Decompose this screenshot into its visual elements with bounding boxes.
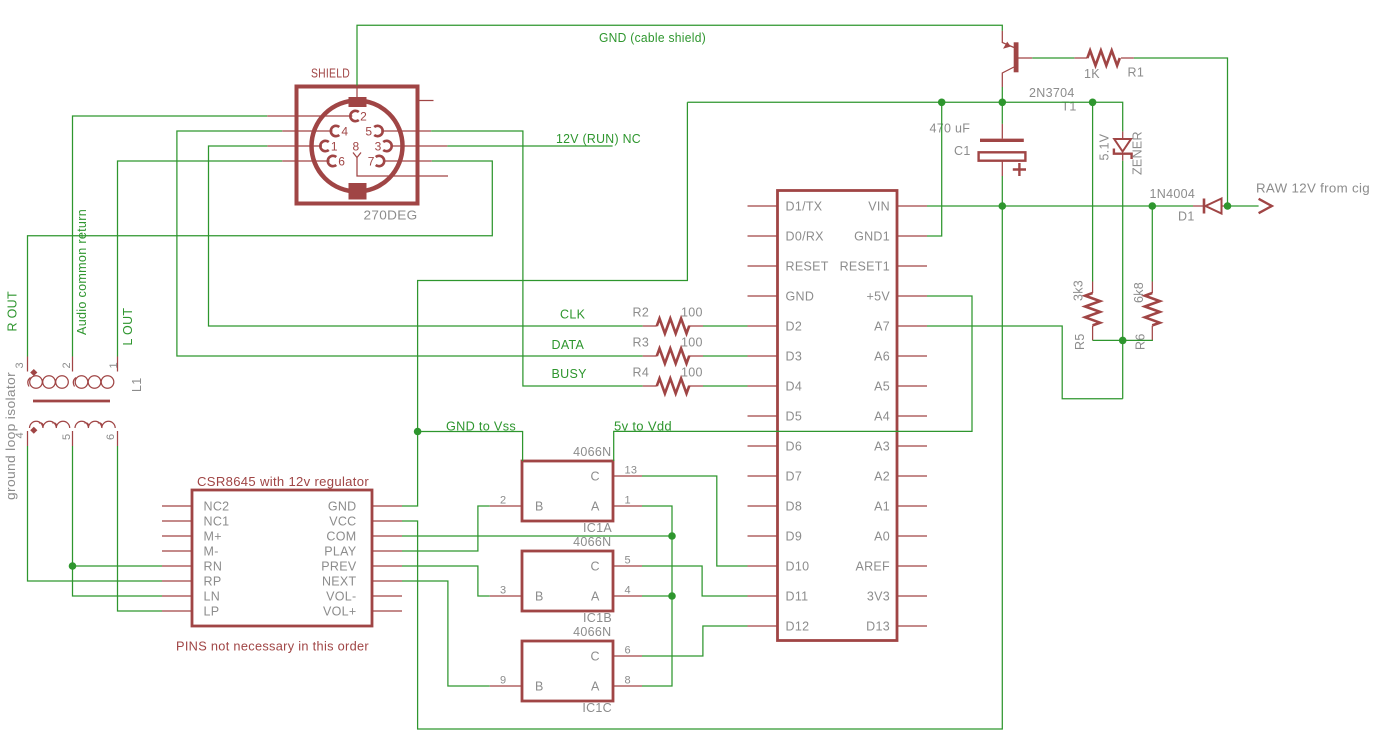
svg-text:2N3704: 2N3704 <box>1029 86 1075 100</box>
pin 3V3 of arduino <box>897 595 927 597</box>
resistor R6 6k8 <box>1151 282 1153 341</box>
svg-text:CSR8645 with 12v regulator: CSR8645 with 12v regulator <box>197 475 369 489</box>
svg-text:LP: LP <box>204 605 220 619</box>
wire R5 top <box>1092 102 1094 281</box>
zener diode 5.1V <box>1114 139 1131 152</box>
pin D13 of arduino <box>897 625 927 627</box>
svg-text:A: A <box>591 500 600 514</box>
transformer L1 bottom winding 5-6 <box>75 421 115 428</box>
svg-text:PREV: PREV <box>321 560 357 574</box>
svg-text:2: 2 <box>360 110 367 124</box>
svg-text:SHIELD: SHIELD <box>311 67 350 81</box>
svg-text:D8: D8 <box>786 500 803 514</box>
pin A4 of arduino <box>897 415 927 417</box>
svg-text:VOL+: VOL+ <box>323 605 357 619</box>
resistor R1 1K <box>1074 57 1134 59</box>
svg-text:Audio common return: Audio common return <box>75 209 89 335</box>
svg-text:12V (RUN) NC: 12V (RUN) NC <box>556 132 641 146</box>
svg-text:VIN: VIN <box>868 200 890 214</box>
RAW 12V arrow head <box>1259 199 1272 213</box>
svg-text:D9: D9 <box>786 530 803 544</box>
svg-text:4: 4 <box>341 125 348 139</box>
svg-text:M-: M- <box>204 545 219 559</box>
svg-text:R2: R2 <box>633 306 650 320</box>
svg-text:GND (cable shield): GND (cable shield) <box>599 31 706 45</box>
pin A5 of arduino <box>897 385 927 387</box>
svg-text:L1: L1 <box>130 377 144 392</box>
pin A6 of arduino <box>897 355 927 357</box>
pin LN of CSR8645 <box>162 595 192 597</box>
svg-text:D11: D11 <box>786 590 809 604</box>
svg-text:VCC: VCC <box>329 515 356 529</box>
svg-text:A3: A3 <box>874 440 890 454</box>
svg-text:1K: 1K <box>1084 67 1100 81</box>
pin GND of arduino <box>748 295 778 297</box>
pin 1 of DIN <box>267 145 322 147</box>
svg-text:A: A <box>591 590 600 604</box>
connector top key tab <box>349 97 367 107</box>
module CSR8645 box <box>192 490 372 626</box>
wire RAW 12V / VIN rail net <box>402 176 1259 729</box>
svg-text:1: 1 <box>625 495 631 507</box>
svg-text:AREF: AREF <box>855 560 890 574</box>
pin GND of CSR8645 <box>372 505 402 507</box>
junction dot <box>668 532 676 540</box>
resistor R2 100 <box>643 325 703 327</box>
wire L OUT net (DIN6 to L1 pin1) <box>118 161 283 357</box>
svg-text:RESET: RESET <box>786 260 829 274</box>
svg-text:4: 4 <box>625 585 631 597</box>
svg-text:D10: D10 <box>786 560 810 574</box>
svg-text:ZENER: ZENER <box>1131 131 1145 175</box>
svg-text:D0/RX: D0/RX <box>786 230 825 244</box>
svg-text:D3: D3 <box>786 350 803 364</box>
junction dot <box>69 562 77 570</box>
svg-text:5v to Vdd: 5v to Vdd <box>614 420 672 434</box>
wire BUSY net <box>431 131 747 386</box>
svg-text:9: 9 <box>500 675 506 687</box>
wire L1 pin4 to RP <box>28 446 163 581</box>
svg-text:NC2: NC2 <box>204 500 230 514</box>
pin GND1 of arduino <box>897 235 927 237</box>
wire CLK net <box>209 146 748 326</box>
wire GND rail net <box>402 87 1123 506</box>
svg-text:B: B <box>535 500 544 514</box>
svg-text:VOL-: VOL- <box>326 590 356 604</box>
svg-text:PINS not necessary in this ord: PINS not necessary in this order <box>176 640 369 654</box>
svg-text:A5: A5 <box>874 380 890 394</box>
pin RN of CSR8645 <box>162 565 192 567</box>
svg-text:M+: M+ <box>204 530 222 544</box>
svg-text:6: 6 <box>338 155 345 169</box>
svg-text:A7: A7 <box>874 320 890 334</box>
svg-text:3: 3 <box>500 585 506 597</box>
resistor R4 100 <box>643 385 703 387</box>
svg-text:3: 3 <box>375 140 382 154</box>
svg-text:3: 3 <box>14 362 26 368</box>
pin D2 of arduino <box>748 325 778 327</box>
svg-text:GND: GND <box>328 500 357 514</box>
connector DIN-8 270DEG (shield box) <box>297 87 418 204</box>
svg-text:R OUT: R OUT <box>6 291 20 331</box>
svg-text:3V3: 3V3 <box>867 590 890 604</box>
shield pin stub <box>356 86 358 99</box>
svg-text:A0: A0 <box>874 530 890 544</box>
connector bottom key tab <box>349 183 367 200</box>
pin A2 of arduino <box>897 475 927 477</box>
wire NEXT to IC1C B <box>402 581 490 686</box>
pin COM of CSR8645 <box>372 535 402 537</box>
svg-text:DATA: DATA <box>552 338 585 352</box>
wire IC1C C to D12 <box>642 626 748 656</box>
wire IC1A C to D10 <box>642 476 748 566</box>
pin D9 of arduino <box>748 535 778 537</box>
svg-text:T1: T1 <box>1062 100 1077 114</box>
wire PLAY to IC1A B <box>402 506 490 551</box>
svg-text:4066N: 4066N <box>573 445 611 459</box>
wire GND cable shield net <box>357 25 1002 85</box>
svg-text:D1: D1 <box>1178 210 1195 224</box>
svg-text:R6: R6 <box>1134 333 1148 350</box>
svg-text:3k3: 3k3 <box>1072 280 1086 301</box>
svg-text:5: 5 <box>61 434 73 440</box>
svg-text:D12: D12 <box>786 620 810 634</box>
junction dot <box>1224 202 1232 210</box>
svg-text:100: 100 <box>681 366 703 380</box>
pin D11 of arduino <box>748 595 778 597</box>
svg-text:C: C <box>591 470 600 484</box>
svg-text:ground loop isolator: ground loop isolator <box>4 372 18 500</box>
svg-text:5: 5 <box>625 555 631 567</box>
wire COM net (A pins of 4066) <box>402 506 672 686</box>
svg-text:270DEG: 270DEG <box>364 209 418 223</box>
pin B of IC1B (pin 3) <box>490 595 522 597</box>
svg-text:470 uF: 470 uF <box>930 122 971 136</box>
pin VOL- of CSR8645 <box>372 595 402 597</box>
svg-text:RAW 12V from cig: RAW 12V from cig <box>1256 182 1370 196</box>
wire Audio common return (DIN2 to L1 pin2) <box>73 116 268 357</box>
svg-text:6: 6 <box>105 434 117 440</box>
svg-text:100: 100 <box>681 306 703 320</box>
svg-text:D2: D2 <box>786 320 803 334</box>
transformer L1 core <box>33 400 110 403</box>
svg-text:L OUT: L OUT <box>121 308 135 346</box>
junction dot <box>414 428 422 436</box>
svg-text:D7: D7 <box>786 470 803 484</box>
pin C of IC1A (pin 13) <box>614 475 643 477</box>
pin AREF of arduino <box>897 565 927 567</box>
svg-text:D5: D5 <box>786 410 803 424</box>
svg-text:1: 1 <box>331 140 338 154</box>
junction dot <box>938 99 946 107</box>
svg-text:RESET1: RESET1 <box>840 260 890 274</box>
pin A of IC1A (pin 1) <box>614 505 643 507</box>
capacitor C1 470uF polarized <box>980 139 1024 142</box>
pin A1 of arduino <box>897 505 927 507</box>
svg-text:8: 8 <box>352 140 359 154</box>
wire +5V to Vdd net <box>614 296 972 461</box>
svg-text:8: 8 <box>625 675 631 687</box>
svg-text:+5V: +5V <box>867 290 891 304</box>
pin 4 of DIN <box>282 130 332 132</box>
connector DIN-8 circle body <box>312 101 403 192</box>
pin 5 of DIN <box>381 130 431 132</box>
svg-text:D6: D6 <box>786 440 803 454</box>
pin A of IC1B (pin 4) <box>614 595 643 597</box>
arduino module box <box>778 191 898 641</box>
transformer L1 ground loop isolator: pin stubs <box>28 357 118 447</box>
analog switch IC1C 4066N box <box>522 641 613 701</box>
pin A3 of arduino <box>897 445 927 447</box>
svg-text:IC1A: IC1A <box>583 521 612 535</box>
wire R OUT net (DIN7 to L1 pin3) <box>28 161 493 357</box>
svg-text:COM: COM <box>326 530 356 544</box>
svg-text:C: C <box>591 560 600 574</box>
svg-text:A6: A6 <box>874 350 890 364</box>
junction dot <box>1149 202 1157 210</box>
pin D4 of arduino <box>748 385 778 387</box>
svg-text:GND1: GND1 <box>854 230 890 244</box>
wire zener/divider net to A7 <box>927 161 1153 399</box>
transformer L1 bottom winding 4-5 <box>30 421 70 428</box>
pin A of IC1C (pin 8) <box>614 685 643 687</box>
svg-text:13: 13 <box>625 465 638 477</box>
pin D10 of arduino <box>748 565 778 567</box>
pin LP of CSR8645 <box>162 610 192 612</box>
svg-text:4066N: 4066N <box>573 625 611 639</box>
pin VOL+ of CSR8645 <box>372 610 402 612</box>
svg-text:R3: R3 <box>633 336 650 350</box>
junction dot <box>1119 337 1127 345</box>
pin D12 of arduino <box>748 625 778 627</box>
pin B of IC1A (pin 2) <box>490 505 522 507</box>
pin RESET1 of arduino <box>897 265 927 267</box>
svg-text:6: 6 <box>625 645 631 657</box>
svg-text:GND: GND <box>786 290 815 304</box>
pin D8 of arduino <box>748 505 778 507</box>
pin A0 of arduino <box>897 535 927 537</box>
pin VCC of CSR8645 <box>372 520 402 522</box>
pin 3 of DIN <box>390 145 447 147</box>
svg-text:NEXT: NEXT <box>322 575 357 589</box>
svg-text:2: 2 <box>500 495 506 507</box>
pin NC1 of CSR8645 <box>162 520 192 522</box>
wire L1 pin6 to LP <box>118 446 163 611</box>
transformer L1 top winding 2-1 <box>73 376 113 389</box>
pin RESET of arduino <box>748 265 778 267</box>
pin NC2 of CSR8645 <box>162 505 192 507</box>
svg-text:BUSY: BUSY <box>552 367 588 381</box>
wire base to R1 <box>1032 58 1227 206</box>
diode D1 1N4004 <box>1203 199 1206 214</box>
svg-text:5: 5 <box>365 125 372 139</box>
pin M- of CSR8645 <box>162 550 192 552</box>
svg-text:6k8: 6k8 <box>1132 282 1146 303</box>
pin C of IC1C (pin 6) <box>614 655 643 657</box>
pin RP of CSR8645 <box>162 580 192 582</box>
junction dot <box>1089 99 1097 107</box>
analog switch IC1A 4066N box <box>522 461 613 521</box>
svg-text:D1/TX: D1/TX <box>786 200 823 214</box>
pin D1/TX of arduino <box>748 205 778 207</box>
junction dot <box>668 592 676 600</box>
svg-text:A2: A2 <box>874 470 890 484</box>
svg-text:D13: D13 <box>866 620 890 634</box>
svg-text:4066N: 4066N <box>573 535 611 549</box>
svg-text:5.1V: 5.1V <box>1098 133 1112 160</box>
svg-text:C1: C1 <box>954 144 971 158</box>
svg-text:CLK: CLK <box>560 308 586 322</box>
svg-text:R1: R1 <box>1128 66 1145 80</box>
svg-text:B: B <box>535 590 544 604</box>
pin PREV of CSR8645 <box>372 565 402 567</box>
wire DATA net <box>177 131 748 356</box>
pin D5 of arduino <box>748 415 778 417</box>
svg-text:2: 2 <box>61 362 73 368</box>
pin 6 of DIN <box>282 160 329 162</box>
svg-text:NC1: NC1 <box>204 515 230 529</box>
svg-text:B: B <box>535 680 544 694</box>
resistor R3 100 <box>643 355 703 357</box>
svg-text:R5: R5 <box>1073 333 1087 350</box>
svg-text:7: 7 <box>368 155 375 169</box>
pin 2 of DIN <box>267 115 352 117</box>
analog switch IC1B 4066N box <box>522 551 613 611</box>
wire IC1B C to D11 <box>642 566 748 596</box>
pin M+ of CSR8645 <box>162 535 192 537</box>
svg-text:GND to Vss: GND to Vss <box>446 420 516 434</box>
svg-text:100: 100 <box>681 336 703 350</box>
junction dot <box>999 202 1007 210</box>
pin PLAY of CSR8645 <box>372 550 402 552</box>
pin D6 of arduino <box>748 445 778 447</box>
svg-text:A4: A4 <box>874 410 890 424</box>
svg-text:LN: LN <box>204 590 221 604</box>
pin B of IC1C (pin 9) <box>490 685 522 687</box>
svg-text:R4: R4 <box>633 366 650 380</box>
svg-text:1N4004: 1N4004 <box>1150 187 1196 201</box>
pin NEXT of CSR8645 <box>372 580 402 582</box>
polarity dot pin4 <box>30 427 37 434</box>
svg-text:D4: D4 <box>786 380 803 394</box>
transformer L1 top winding 3-2 <box>28 376 69 389</box>
wire PREV to IC1B B <box>402 566 490 596</box>
svg-text:1: 1 <box>108 362 120 368</box>
pin D3 of arduino <box>748 355 778 357</box>
transistor T1 2N3704 <box>1014 42 1019 72</box>
pin C of IC1B (pin 5) <box>614 565 643 567</box>
pin 7 of DIN <box>383 160 432 162</box>
svg-text:A: A <box>591 680 600 694</box>
pin D0/RX of arduino <box>748 235 778 237</box>
svg-text:IC1C: IC1C <box>582 701 612 715</box>
svg-text:RP: RP <box>204 575 222 589</box>
wire 12V RUN NC stub <box>447 145 612 147</box>
pin VIN of arduino <box>897 205 927 207</box>
pin D7 of arduino <box>748 475 778 477</box>
resistor R5 3k3 <box>1092 282 1094 341</box>
svg-text:RN: RN <box>204 560 223 574</box>
svg-text:C: C <box>591 650 600 664</box>
shield pin stub right <box>418 100 434 102</box>
pin A7 of arduino <box>897 325 927 327</box>
svg-text:PLAY: PLAY <box>324 545 357 559</box>
svg-text:A1: A1 <box>874 500 890 514</box>
polarity dot pin3 <box>30 369 37 376</box>
wire L1 pin5 to RN and LN <box>73 446 163 596</box>
pin +5V of arduino <box>897 295 927 297</box>
junction dot <box>999 99 1007 107</box>
svg-text:IC1B: IC1B <box>583 611 612 625</box>
